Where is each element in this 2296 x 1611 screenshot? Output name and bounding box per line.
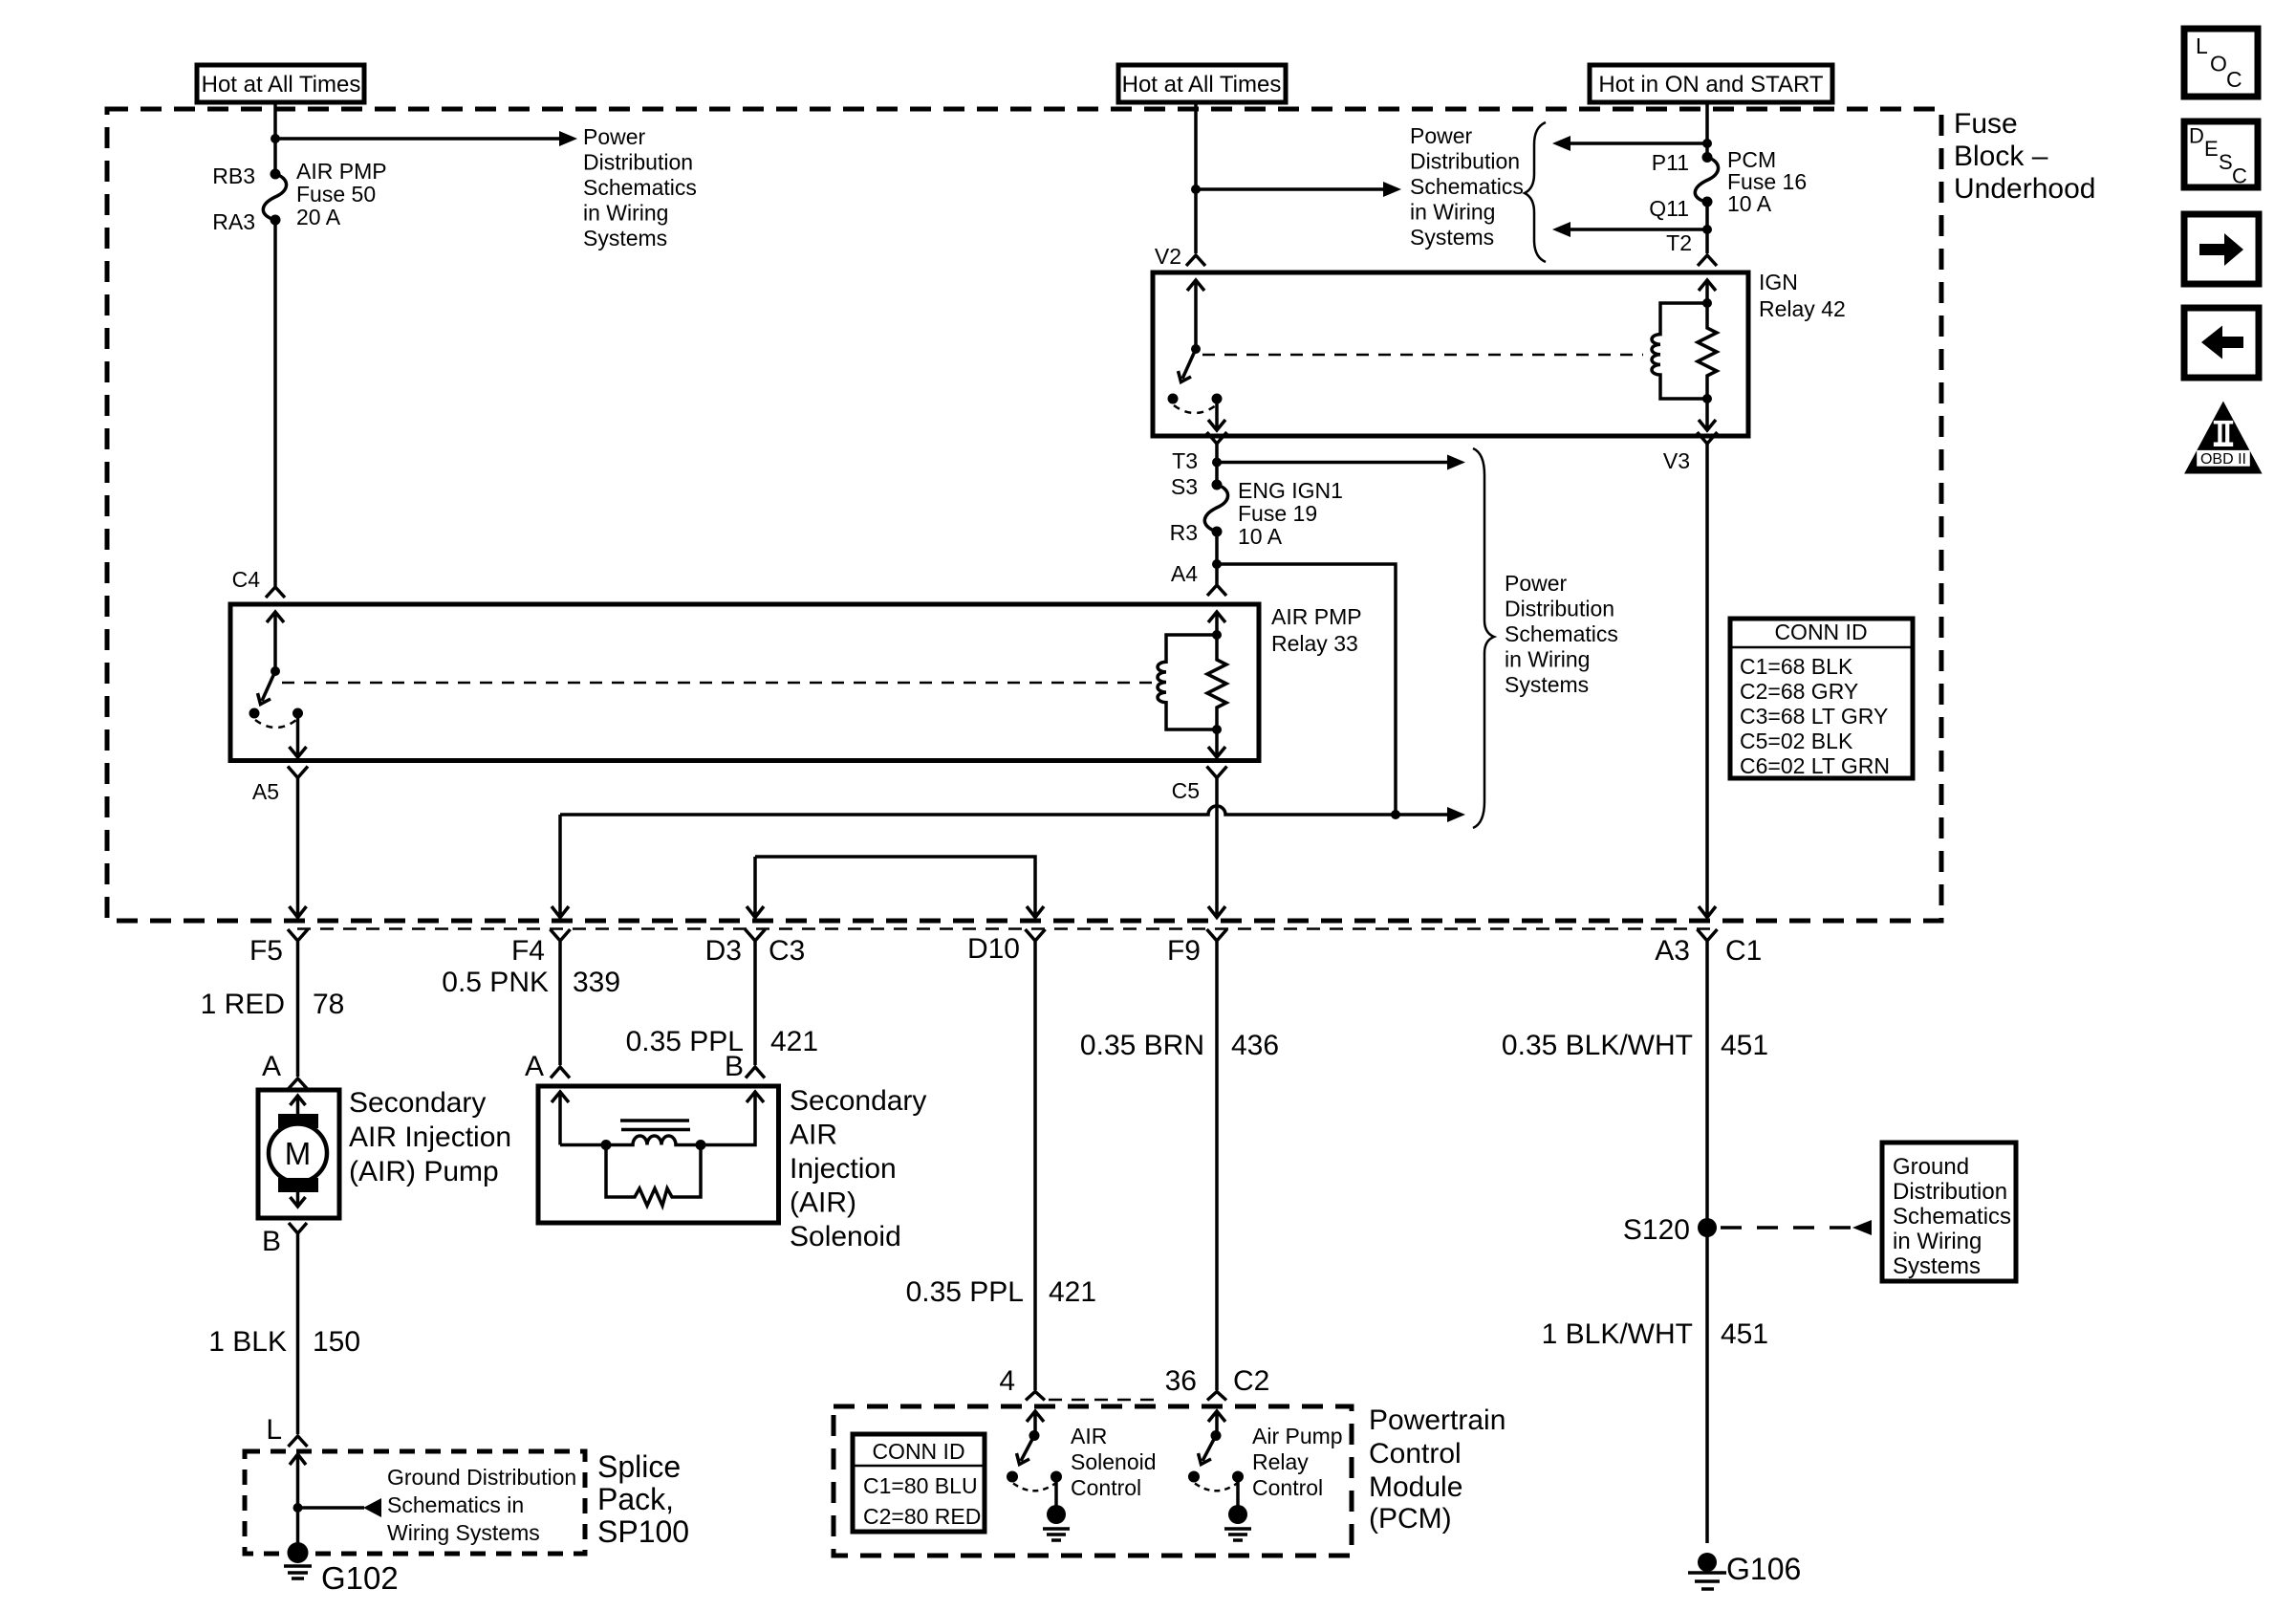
svg-text:A5: A5	[252, 779, 279, 804]
wire: internal jumper C3 to D10 inside fuse block	[755, 857, 1044, 918]
wire: T3 down through fuse 19 to A4	[1215, 444, 1219, 485]
svg-text:0.35 PPL: 0.35 PPL	[626, 1026, 744, 1057]
svg-text:Ground Distribution: Ground Distribution	[387, 1465, 576, 1490]
svg-text:Systems: Systems	[583, 226, 667, 250]
solenoid B return arrow inside	[701, 1092, 764, 1145]
solenoid suppression resistor loop	[606, 1145, 701, 1207]
brace for Power Distribution (top right)	[1525, 122, 1546, 262]
relay 33 switch contact (left, normally open rest pos)	[249, 708, 260, 719]
wire: splice to ground distribution arrow	[298, 1506, 365, 1510]
solenoid L1 box: Secondary AIR Injection (AIR) Solenoid	[538, 1086, 779, 1223]
fuse F50: AIR PMP Fuse 50 20 A	[263, 169, 286, 226]
connector terminal F5 (below fuse block)	[288, 929, 308, 1077]
node: A4 junction	[1212, 559, 1222, 569]
relay 33 switch: fixed contact arrow up (pin C4)	[267, 612, 284, 671]
svg-text:Relay 33: Relay 33	[1271, 631, 1358, 656]
wire label: 0.35 PPL 421 (PCM)	[906, 1276, 1097, 1308]
svg-text:(AIR) Pump: (AIR) Pump	[349, 1156, 499, 1187]
solenoid core lines	[620, 1121, 690, 1130]
svg-text:4: 4	[999, 1365, 1015, 1397]
power label box: Hot at All Times (left)	[197, 65, 364, 102]
relay 42 coil return arrow down to pin V3	[1699, 399, 1716, 430]
svg-text:421: 421	[1049, 1276, 1096, 1308]
svg-text:M: M	[285, 1136, 312, 1171]
solenoid coil node (left)	[601, 1140, 612, 1150]
relay 42 linkage dashed line	[1202, 354, 1643, 357]
svg-text:Powertrain: Powertrain	[1369, 1404, 1505, 1436]
relay 33 coil feed arrow up (pin A4)	[1208, 612, 1225, 635]
svg-text:Systems: Systems	[1505, 672, 1589, 697]
svg-text:V3: V3	[1663, 448, 1690, 473]
relay 33 switch contact (right, to pin A5)	[292, 708, 303, 719]
svg-text:A4: A4	[1171, 561, 1198, 586]
value label: ENG IGN1 Fuse 19 10 A	[1238, 478, 1343, 549]
fuse F19: ENG IGN1 Fuse 19 10 A	[1204, 480, 1227, 537]
svg-text:C4: C4	[232, 567, 261, 592]
relay 42 switch contact (right, to pin T3)	[1212, 394, 1223, 404]
svg-text:T3: T3	[1172, 448, 1198, 473]
label: AIR Solenoid Control	[1071, 1424, 1157, 1500]
svg-text:36: 36	[1165, 1365, 1197, 1397]
ground (PCM left)	[1043, 1505, 1070, 1540]
label: Powertrain Control Module (PCM)	[1369, 1404, 1505, 1535]
svg-text:10 A: 10 A	[1238, 524, 1283, 549]
svg-text:CONN ID: CONN ID	[1774, 620, 1867, 644]
svg-text:L: L	[2196, 33, 2208, 58]
connector terminal at A4	[1207, 585, 1226, 596]
svg-text:in Wiring: in Wiring	[1410, 200, 1495, 225]
relay 42 coil (inductor)	[1652, 303, 1707, 399]
svg-text:ENG IGN1: ENG IGN1	[1238, 478, 1343, 503]
svg-text:Power: Power	[583, 124, 646, 149]
svg-text:F5: F5	[249, 935, 283, 967]
label: AIR PMP Relay 33	[1271, 604, 1362, 656]
connector terminal at A5	[288, 767, 308, 778]
wire: A5 down to connector F5	[290, 778, 307, 918]
svg-text:Power: Power	[1505, 571, 1568, 596]
svg-text:436: 436	[1231, 1030, 1279, 1061]
node: junction A4-branch on horizontal	[1391, 810, 1400, 819]
relay 33 coil top node	[1212, 630, 1222, 640]
wire label: 0.5 PNK 339	[442, 967, 620, 998]
node: splice junction	[293, 1503, 303, 1513]
svg-text:C2: C2	[1233, 1365, 1269, 1397]
relay 33 linkage dashed line	[282, 682, 1154, 685]
icon: LOC box	[2184, 29, 2258, 97]
node: junction on battery feed	[271, 134, 280, 143]
PCM dashed box: Powertrain Control Module	[834, 1406, 1352, 1556]
connector terminal at splice pack pin L	[289, 1436, 308, 1447]
svg-text:1 BLK: 1 BLK	[208, 1326, 287, 1358]
svg-text:Splice: Splice	[597, 1449, 681, 1484]
svg-text:S: S	[2219, 150, 2233, 174]
svg-text:C1=68 BLK: C1=68 BLK	[1740, 654, 1853, 679]
svg-text:AIR: AIR	[1071, 1424, 1107, 1448]
wire: from Hot at All Times (middle) down to relay 42 pin V2	[1194, 102, 1198, 253]
svg-text:C2=68 GRY: C2=68 GRY	[1740, 679, 1858, 704]
wire: ENG IGN1 feed horizontal (F4 to arrow) with hop over C5 wire	[560, 806, 1447, 815]
connector terminal at solenoid pin B	[746, 1067, 765, 1078]
svg-text:Power: Power	[1410, 123, 1473, 148]
svg-text:Control: Control	[1369, 1438, 1462, 1469]
svg-text:Fuse 19: Fuse 19	[1238, 501, 1317, 526]
svg-text:Schematics: Schematics	[583, 175, 697, 200]
power label box: Hot in ON and START	[1590, 65, 1832, 102]
brace for Power Distribution (right of relay 33)	[1473, 448, 1494, 828]
solenoid A feed arrow inside	[552, 1092, 602, 1145]
svg-text:150: 150	[313, 1326, 360, 1358]
connector terminal F4	[551, 929, 571, 1065]
note box: Ground Distribution Schematics in Wiring Systems	[1882, 1143, 2016, 1281]
wire: C3 drop with arrow at fuse block boundary	[747, 857, 764, 918]
wire: arrow to Power Distribution (top left)	[275, 137, 559, 141]
svg-text:0.35 PPL: 0.35 PPL	[906, 1276, 1024, 1308]
svg-text:A: A	[262, 1051, 281, 1082]
svg-text:Hot at All Times: Hot at All Times	[202, 72, 361, 98]
svg-text:C3: C3	[769, 935, 805, 967]
svg-text:V2: V2	[1155, 244, 1181, 269]
wire: arrow right to Power Distribution brace (from T3)	[1217, 461, 1447, 465]
svg-text:Systems: Systems	[1893, 1253, 1981, 1279]
svg-text:Control: Control	[1071, 1475, 1141, 1500]
connector terminal at PCM pin 4	[1026, 1392, 1045, 1401]
wire label: 0.35 BRN 436	[1080, 1030, 1279, 1061]
fuse block underhood dashed box	[107, 109, 1941, 921]
svg-text:Fuse 50: Fuse 50	[296, 182, 376, 207]
svg-text:A: A	[525, 1051, 544, 1082]
icon: OBD II triangle	[2184, 402, 2263, 474]
svg-text:D3: D3	[705, 935, 742, 967]
svg-text:C5=02 BLK: C5=02 BLK	[1740, 729, 1853, 753]
wire: pump B down to splice pack	[296, 1233, 300, 1434]
wire: fuse 16 output down to relay 42 pin T2	[1705, 202, 1709, 253]
connector terminal at T3	[1207, 432, 1227, 444]
PCM driver: Air Pump Relay Control switch	[1188, 1411, 1244, 1506]
motor M1: Secondary AIR Injection (AIR) Pump box	[258, 1090, 339, 1218]
ground G106	[1688, 1553, 1726, 1589]
svg-text:Schematics: Schematics	[1893, 1204, 2011, 1230]
svg-text:OBD II: OBD II	[2200, 451, 2246, 468]
relay 42 switch pivot node	[1191, 344, 1201, 354]
wire: arrow left to Power Distribution brace (lower)	[1570, 228, 1707, 231]
connector terminal at V3	[1698, 432, 1718, 444]
arrow to Power Distribution brace (lower)	[1447, 807, 1465, 822]
relay 42 coil feed arrow up (pin T2)	[1699, 280, 1716, 303]
relay 42 switched output arrow down to pin T3	[1208, 399, 1225, 430]
svg-text:RB3: RB3	[212, 163, 255, 188]
svg-text:Control: Control	[1252, 1475, 1323, 1500]
connector terminal F9	[1207, 929, 1227, 1390]
power label box: Hot at All Times (middle)	[1118, 65, 1286, 102]
wire: C5 down to connector F9 (with crossing hop of horizontal wire)	[1208, 778, 1225, 918]
svg-text:Distribution: Distribution	[1505, 597, 1614, 621]
svg-text:RA3: RA3	[212, 209, 255, 234]
label: Fuse Block - Underhood	[1954, 108, 2095, 205]
wire label: 1 BLK 150	[208, 1326, 360, 1358]
wire label: 0.35 PPL 421 (solenoid)	[626, 1026, 819, 1057]
wire: V3 down to connector A3/C1	[1699, 444, 1716, 918]
PCM connector thin dashed line	[1049, 1399, 1161, 1402]
svg-text:Distribution: Distribution	[1893, 1179, 2007, 1205]
splice pack entry arrow	[290, 1454, 306, 1508]
svg-text:Air Pump: Air Pump	[1252, 1424, 1343, 1448]
relay 33 coil return arrow down to pin C5	[1208, 729, 1225, 757]
relay 42 switch: fixed contact arrow up (pin V2)	[1187, 280, 1204, 349]
wire: F4 drop from horizontal to connector	[552, 815, 569, 918]
wire: battery feed from Hot at All Times (left) down to fuse 50	[273, 102, 277, 174]
fuse F16: PCM Fuse 16 10 A	[1695, 152, 1718, 207]
note: Power Distribution Schematics in Wiring Systems (top left)	[583, 124, 697, 250]
svg-text:Schematics: Schematics	[1505, 621, 1618, 646]
pump brush (bottom)	[278, 1178, 318, 1192]
relay 33 switch pivot node	[271, 666, 280, 676]
svg-text:Solenoid: Solenoid	[790, 1221, 901, 1252]
svg-text:C1=80 BLU: C1=80 BLU	[863, 1473, 978, 1498]
svg-text:Block –: Block –	[1954, 141, 2048, 172]
splice node S120	[1698, 1218, 1717, 1237]
wire: fuse 50 output down to relay 33 pin C4	[273, 220, 277, 586]
label: Splice Pack, SP100	[597, 1449, 689, 1549]
connector terminal D10	[1026, 929, 1046, 1390]
solenoid coil node (right)	[696, 1140, 706, 1150]
svg-text:Hot at All Times: Hot at All Times	[1122, 72, 1282, 98]
label: Secondary AIR Injection (AIR) Solenoid	[790, 1085, 926, 1252]
connector terminal A3/C1	[1698, 929, 1718, 1543]
svg-text:Relay 42: Relay 42	[1759, 296, 1846, 321]
svg-text:Hot in ON and START: Hot in ON and START	[1598, 72, 1824, 98]
svg-text:Solenoid: Solenoid	[1071, 1449, 1157, 1474]
svg-text:C2=80 RED: C2=80 RED	[863, 1504, 981, 1529]
CONN ID table (PCM)	[853, 1434, 985, 1532]
svg-text:in Wiring: in Wiring	[1505, 647, 1590, 672]
svg-text:C3=68 LT GRY: C3=68 LT GRY	[1740, 704, 1888, 729]
svg-text:SP100: SP100	[597, 1514, 689, 1549]
svg-text:10 A: 10 A	[1727, 191, 1772, 216]
svg-text:451: 451	[1721, 1318, 1768, 1350]
relay K42 box: IGN Relay 42	[1153, 272, 1748, 436]
value label: PCM Fuse 16 10 A	[1727, 147, 1807, 216]
node: junction on V2 feed	[1191, 185, 1201, 194]
svg-text:Q11: Q11	[1649, 196, 1689, 221]
svg-text:0.35 BRN: 0.35 BRN	[1080, 1030, 1204, 1061]
svg-text:C: C	[2226, 67, 2242, 92]
svg-text:Underhood: Underhood	[1954, 173, 2095, 205]
svg-text:AIR PMP: AIR PMP	[1271, 604, 1362, 629]
svg-text:0.35 BLK/WHT: 0.35 BLK/WHT	[1502, 1030, 1693, 1061]
svg-text:1 RED: 1 RED	[201, 989, 285, 1020]
connector terminal at solenoid pin A	[551, 1067, 570, 1078]
relay 42 resistor	[1698, 303, 1717, 399]
connector terminal at C5	[1207, 767, 1227, 778]
pump return arrow inside	[291, 1192, 306, 1207]
PCM driver: AIR Solenoid Control switch	[1007, 1411, 1062, 1506]
svg-text:20 A: 20 A	[296, 205, 341, 229]
svg-text:T2: T2	[1666, 230, 1692, 255]
svg-text:G106: G106	[1726, 1552, 1801, 1586]
svg-text:S3: S3	[1171, 474, 1198, 499]
label: Secondary AIR Injection (AIR) Pump	[349, 1087, 511, 1187]
relay 33 coil bottom node	[1212, 725, 1222, 734]
wire: splice down to G102	[296, 1508, 300, 1545]
relay 42 coil top node	[1702, 298, 1712, 308]
svg-text:339: 339	[573, 967, 620, 998]
svg-text:451: 451	[1721, 1030, 1768, 1061]
svg-text:Module: Module	[1369, 1471, 1462, 1503]
relay 33 switched output arrow down to pin A5	[290, 713, 307, 757]
wire: A4 branch to the right and down	[1217, 564, 1396, 815]
connector terminal C3	[746, 929, 766, 941]
svg-text:in Wiring: in Wiring	[583, 201, 668, 226]
svg-text:78: 78	[313, 989, 344, 1020]
wire label: 0.35 BLK/WHT 451	[1502, 1030, 1768, 1061]
node: T3 junction	[1212, 458, 1222, 468]
svg-text:C5: C5	[1172, 778, 1200, 803]
note: Power Distribution Schematics in Wiring Systems (top middle)	[1410, 123, 1524, 250]
svg-text:Injection: Injection	[790, 1153, 897, 1185]
svg-text:F9: F9	[1167, 935, 1201, 967]
pump feed arrow inside	[291, 1096, 306, 1115]
connector terminal at pump pin B	[289, 1223, 307, 1233]
svg-text:P11: P11	[1652, 150, 1689, 175]
svg-text:Schematics: Schematics	[1410, 174, 1524, 199]
svg-text:CONN ID: CONN ID	[872, 1439, 964, 1464]
wire: arrow left to Power Distribution brace (upper)	[1570, 142, 1707, 145]
svg-text:Secondary: Secondary	[790, 1085, 926, 1117]
connector terminal at PCM pin 36	[1207, 1392, 1226, 1401]
value label: AIR PMP Fuse 50 20 A	[296, 159, 387, 229]
connector terminal at V2	[1186, 255, 1205, 266]
svg-text:S120: S120	[1623, 1214, 1690, 1246]
relay 33 switch movable arm	[258, 671, 276, 705]
relay 42 coil bottom node	[1702, 394, 1712, 403]
svg-text:in Wiring: in Wiring	[1893, 1229, 1982, 1254]
svg-text:A3: A3	[1655, 935, 1690, 967]
svg-text:AIR Injection: AIR Injection	[349, 1121, 511, 1153]
relay 42 switch contact (left)	[1168, 394, 1179, 404]
svg-text:C: C	[2232, 164, 2247, 188]
svg-text:Fuse: Fuse	[1954, 108, 2018, 140]
ground (PCM right)	[1224, 1505, 1251, 1540]
relay K33 box: AIR PMP Relay 33	[230, 604, 1259, 761]
svg-text:Wiring Systems: Wiring Systems	[387, 1520, 540, 1545]
relay 33 switch travel arc (dashed)	[255, 720, 296, 728]
wire: solenoid B up to connector D3/C3	[753, 941, 757, 1065]
svg-text:(PCM): (PCM)	[1369, 1503, 1452, 1535]
svg-text:Systems: Systems	[1410, 225, 1494, 250]
svg-text:Distribution: Distribution	[583, 150, 693, 175]
svg-text:Distribution: Distribution	[1410, 149, 1520, 174]
wire: PCM fuse feed from Hot in ON and START	[1705, 102, 1709, 158]
svg-text:Schematics in: Schematics in	[387, 1492, 524, 1517]
svg-text:O: O	[2210, 52, 2227, 76]
icon: right arrow box	[2184, 214, 2259, 284]
svg-text:B: B	[262, 1226, 281, 1257]
note: Ground Distribution Schematics in Wiring Systems (splice)	[387, 1465, 576, 1545]
svg-text:421: 421	[770, 1026, 818, 1057]
CONN ID table (fuse block)	[1730, 619, 1913, 778]
svg-text:0.5 PNK: 0.5 PNK	[442, 967, 549, 998]
svg-text:L: L	[266, 1414, 282, 1446]
svg-text:Ground: Ground	[1893, 1154, 1969, 1180]
wire label: 1 RED 78	[201, 989, 345, 1020]
svg-text:AIR: AIR	[790, 1120, 837, 1151]
note: Power Distribution Schematics in Wiring Systems (middle right)	[1505, 571, 1618, 697]
wire label: 1 BLK/WHT 451	[1542, 1318, 1768, 1350]
connector terminal at pump pin A	[289, 1078, 308, 1089]
connector terminal at C4	[266, 587, 285, 598]
svg-text:Relay: Relay	[1252, 1449, 1309, 1474]
pump brush (top)	[278, 1114, 318, 1128]
connector boundary thin dashed line (bottom of fuse block)	[297, 927, 1711, 930]
svg-text:(AIR): (AIR)	[790, 1187, 856, 1219]
splice pack SP100 dashed box	[245, 1451, 585, 1554]
node: junction below Q11	[1702, 225, 1712, 234]
dashed wire: S120 to ground distribution note	[1721, 1226, 1852, 1230]
svg-text:G102: G102	[321, 1560, 399, 1596]
icon: left arrow box	[2184, 308, 2259, 378]
svg-text:D: D	[2189, 124, 2204, 148]
connector terminal at T2	[1698, 255, 1717, 266]
pump motor circle with M	[269, 1124, 327, 1183]
wire: arrow to Power Distribution (top middle)	[1196, 187, 1383, 191]
svg-text:D10: D10	[967, 933, 1020, 965]
svg-text:AIR PMP: AIR PMP	[296, 159, 387, 184]
relay 42 switch movable arm	[1179, 349, 1197, 382]
ground G102	[284, 1542, 312, 1578]
solenoid coil (inductor)	[606, 1136, 701, 1145]
icon: DESC box	[2184, 121, 2258, 188]
svg-text:C6=02 LT GRN: C6=02 LT GRN	[1740, 753, 1890, 778]
svg-text:1 BLK/WHT: 1 BLK/WHT	[1542, 1318, 1693, 1350]
label: IGN Relay 42	[1759, 270, 1846, 321]
svg-text:E: E	[2204, 137, 2219, 161]
svg-text:F4: F4	[511, 935, 545, 967]
svg-text:IGN: IGN	[1759, 270, 1798, 294]
relay 33 coil (inductor)	[1158, 635, 1217, 729]
svg-text:Secondary: Secondary	[349, 1087, 486, 1119]
node: junction above P11	[1702, 139, 1712, 148]
svg-text:Pack,: Pack,	[597, 1482, 674, 1516]
relay 33 resistor	[1207, 635, 1226, 729]
svg-text:R3: R3	[1170, 520, 1198, 545]
label: Air Pump Relay Control	[1252, 1424, 1343, 1500]
relay 42 switch travel arc (dashed)	[1174, 405, 1216, 413]
svg-text:C1: C1	[1725, 935, 1762, 967]
wire: fuse 19 output to A4 node	[1215, 532, 1219, 584]
